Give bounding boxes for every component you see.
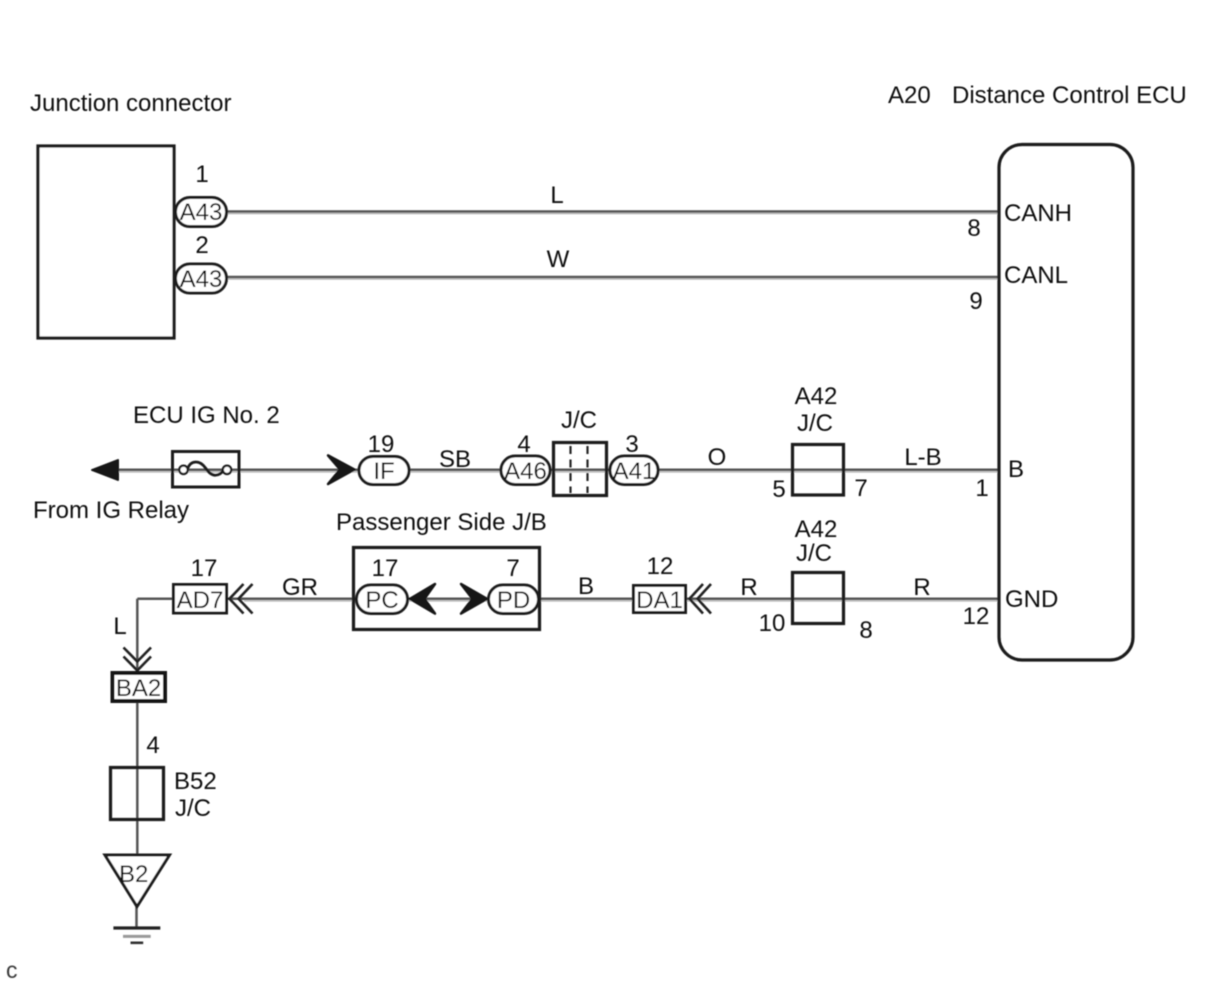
svg-text:O: O (708, 444, 727, 471)
junction connector box (38, 146, 174, 338)
svg-text:Passenger Side J/B: Passenger Side J/B (336, 509, 547, 536)
svg-text:CANH: CANH (1004, 200, 1072, 227)
svg-text:8: 8 (967, 215, 980, 242)
svg-text:A42: A42 (795, 516, 838, 543)
connector IF (359, 457, 409, 485)
svg-text:B52: B52 (174, 768, 217, 795)
svg-text:DA1: DA1 (636, 587, 683, 614)
wire W (CANL) (226, 276, 1000, 279)
svg-text:L: L (113, 613, 126, 640)
svg-text:J/C: J/C (797, 410, 833, 437)
svg-text:IF: IF (373, 458, 394, 485)
svg-text:17: 17 (191, 555, 218, 582)
svg-text:CANL: CANL (1004, 262, 1068, 289)
connector A41 (610, 456, 658, 485)
ECU A20 box (999, 145, 1133, 661)
svg-text:GR: GR (282, 574, 318, 601)
connector A46 (501, 456, 550, 485)
svg-text:A43: A43 (180, 266, 223, 293)
wire L (CANH) (226, 210, 1000, 213)
arrow into PD (461, 584, 487, 614)
junction connector B52 (111, 768, 164, 820)
fuse element wavy (188, 462, 225, 475)
svg-text:PD: PD (497, 587, 530, 614)
svg-text:12: 12 (647, 553, 674, 580)
ground symbol line 2 (123, 935, 151, 938)
svg-text:W: W (547, 246, 570, 273)
svg-text:12: 12 (963, 603, 990, 630)
connector A43 pin 2 (176, 264, 227, 293)
connector BA2 (113, 673, 166, 701)
svg-text:9: 9 (969, 288, 982, 315)
svg-text:A46: A46 (504, 458, 547, 485)
J/C dashed junction box (554, 443, 607, 496)
connector AD7 (174, 585, 227, 614)
arrow to IG relay (92, 460, 118, 480)
wire GND row (137, 598, 1000, 601)
svg-text:c: c (6, 957, 18, 983)
chevron pair after AD7 (230, 584, 244, 614)
svg-text:R: R (740, 574, 757, 601)
arrow into PC (410, 584, 435, 614)
chevron pair after DA1 (690, 584, 704, 614)
svg-text:8: 8 (859, 617, 872, 644)
chevron pair pointing down (124, 648, 152, 662)
svg-text:3: 3 (625, 431, 638, 458)
fuse ECU IG No.2 (173, 452, 240, 488)
J/C internal dashed line 1 (569, 446, 571, 493)
svg-text:B: B (1008, 456, 1024, 483)
fuse terminal left (179, 466, 187, 474)
svg-text:Distance Control ECU: Distance Control ECU (952, 82, 1187, 109)
svg-text:B: B (578, 573, 594, 600)
svg-text:4: 4 (517, 431, 530, 458)
junction connector A42 (upper) (793, 445, 844, 496)
svg-text:7: 7 (506, 555, 519, 582)
svg-text:A41: A41 (613, 458, 656, 485)
svg-text:Junction connector: Junction connector (30, 90, 231, 117)
svg-text:7: 7 (854, 475, 867, 502)
svg-text:From IG Relay: From IG Relay (33, 497, 189, 524)
svg-text:GND: GND (1005, 586, 1058, 613)
svg-text:A43: A43 (180, 199, 223, 226)
svg-text:17: 17 (372, 555, 399, 582)
svg-text:PC: PC (365, 587, 398, 614)
svg-text:A42: A42 (795, 383, 838, 410)
ground symbol line 3 (131, 941, 144, 944)
Passenger Side J/B box (354, 548, 540, 630)
svg-text:J/C: J/C (796, 540, 832, 567)
wire triangle apex to ground (135, 906, 138, 928)
wire IG row (100, 469, 1000, 472)
svg-text:4: 4 (146, 732, 159, 759)
svg-text:10: 10 (759, 610, 786, 637)
svg-text:5: 5 (772, 476, 785, 503)
connector PD (489, 585, 539, 614)
ground symbol line 1 (113, 926, 160, 929)
wire vertical branch to ground (136, 599, 139, 906)
svg-text:1: 1 (975, 475, 988, 502)
svg-text:AD7: AD7 (177, 587, 224, 614)
connector PC (357, 585, 408, 614)
connector DA1 (634, 586, 686, 613)
svg-text:A20: A20 (888, 82, 931, 109)
svg-text:19: 19 (368, 431, 395, 458)
svg-text:ECU IG No. 2: ECU IG No. 2 (133, 402, 280, 429)
svg-text:J/C: J/C (175, 795, 211, 822)
junction connector A42 (lower) (793, 573, 844, 624)
svg-text:R: R (913, 574, 930, 601)
svg-text:SB: SB (439, 446, 471, 473)
svg-text:L-B: L-B (904, 444, 941, 471)
svg-text:2: 2 (195, 232, 208, 259)
fuse terminal right (223, 466, 231, 474)
J/C internal dashed line 2 (586, 446, 588, 493)
svg-text:1: 1 (195, 161, 208, 188)
svg-text:J/C: J/C (561, 407, 597, 434)
male connector arrow before IF (328, 455, 354, 484)
svg-text:L: L (550, 182, 563, 209)
ground connector B2 triangle (105, 855, 170, 907)
svg-text:BA2: BA2 (116, 675, 161, 702)
svg-text:B2: B2 (119, 861, 148, 888)
connector A43 pin 1 (176, 198, 227, 227)
